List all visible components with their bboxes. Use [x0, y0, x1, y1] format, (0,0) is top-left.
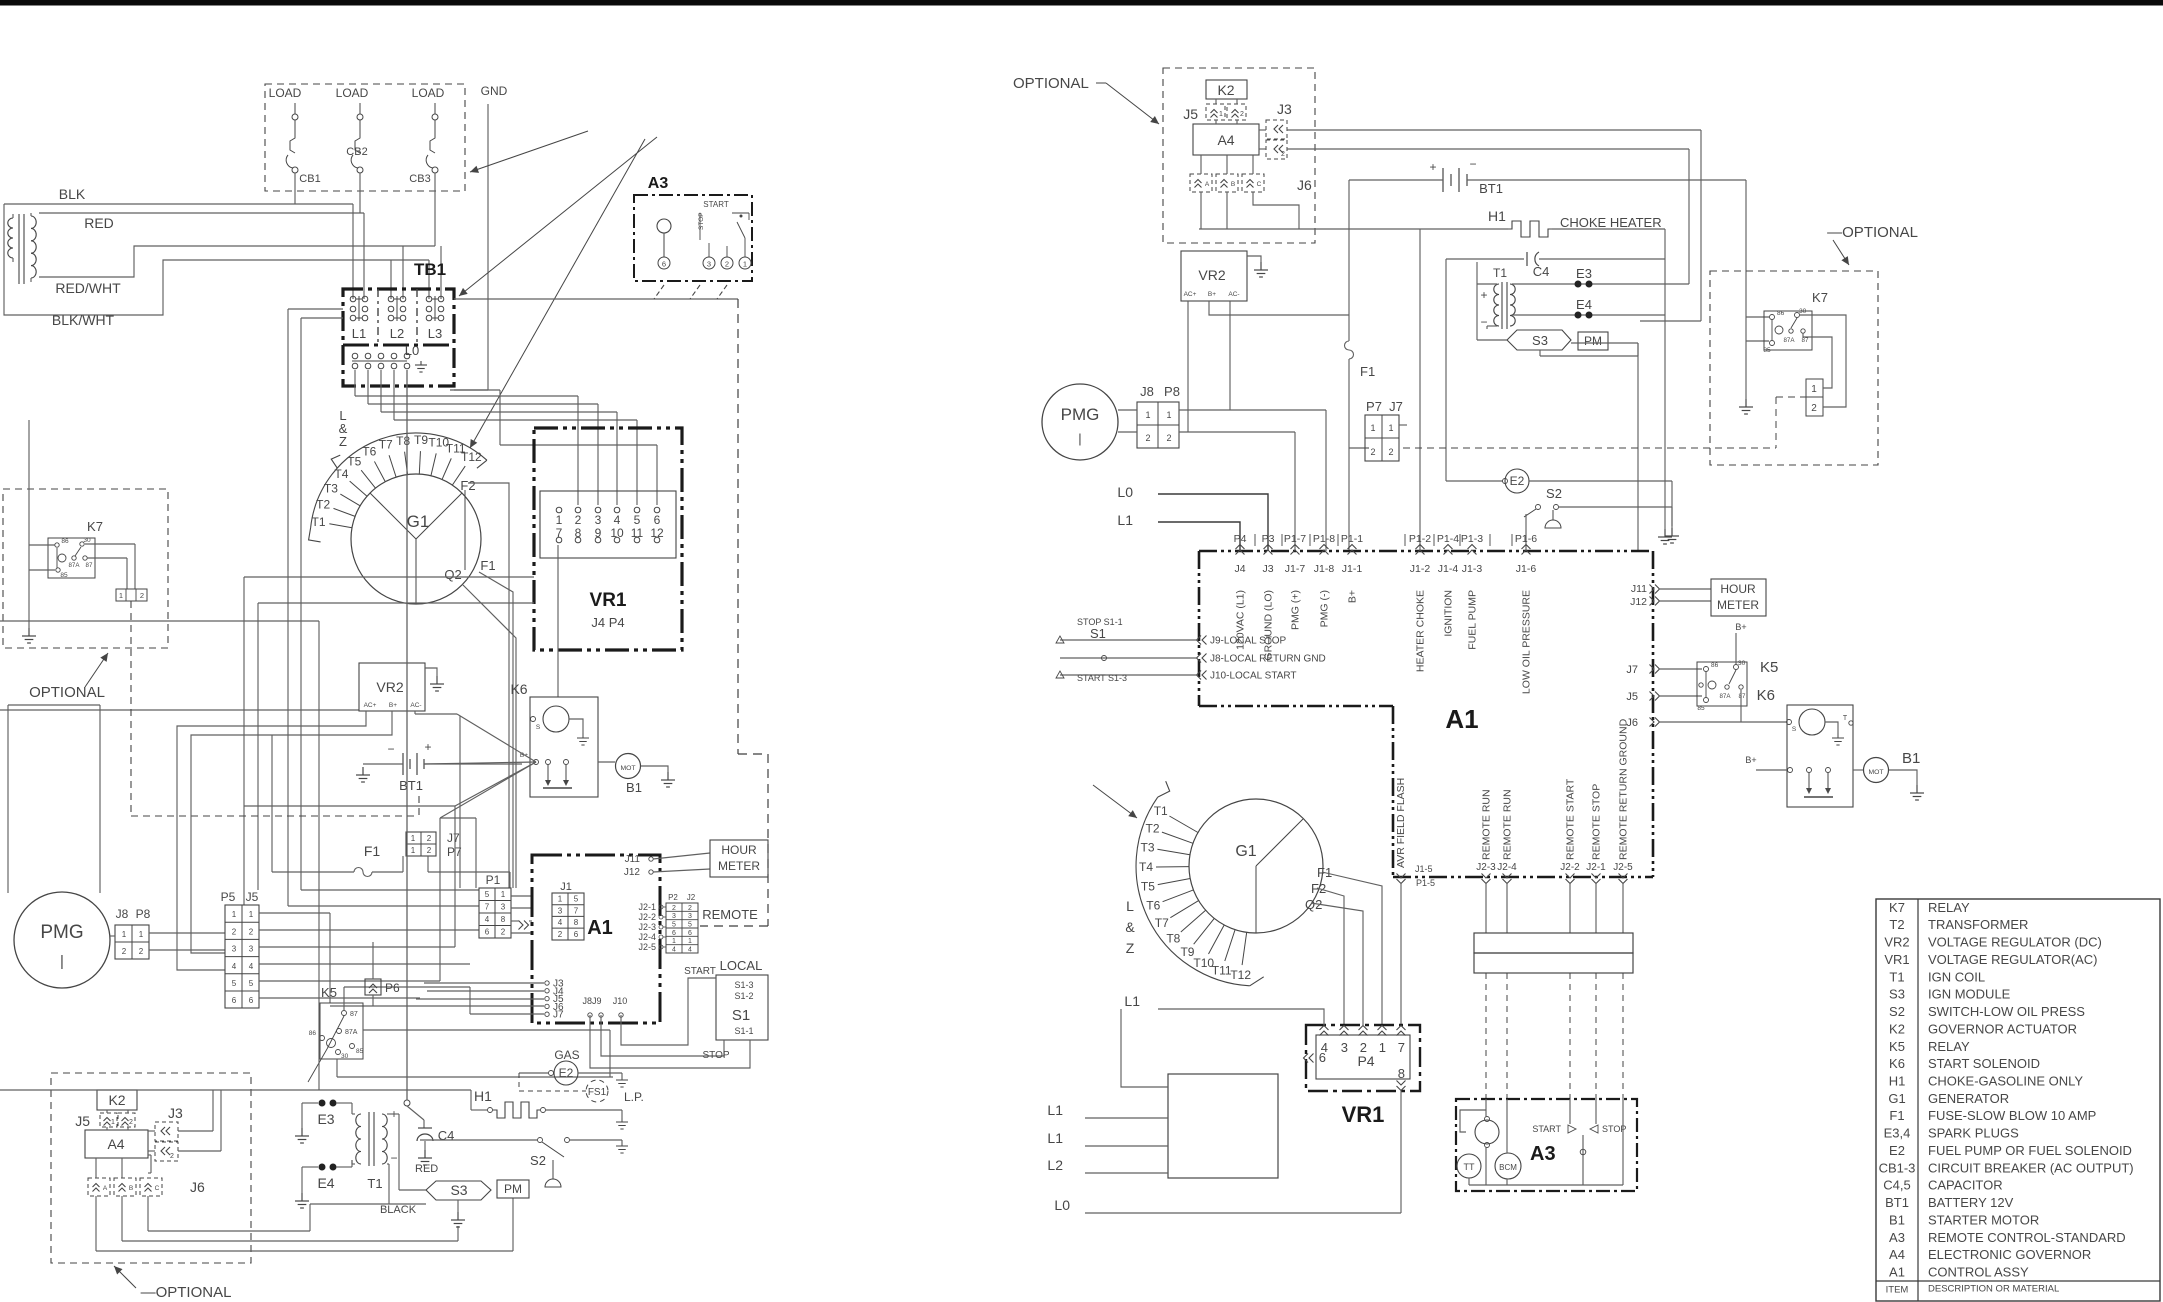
- svg-text:2: 2: [427, 834, 432, 843]
- svg-text:B+: B+: [1347, 590, 1359, 603]
- svg-text:DESCRIPTION OR MATERIAL: DESCRIPTION OR MATERIAL: [1928, 1284, 2059, 1295]
- svg-text:+: +: [1480, 288, 1487, 302]
- svg-text:LOW OIL PRESSURE: LOW OIL PRESSURE: [1521, 590, 1533, 694]
- svg-text:START: START: [1532, 1124, 1561, 1134]
- svg-text:G1: G1: [407, 512, 430, 531]
- svg-text:87: 87: [350, 1011, 358, 1018]
- svg-text:OPTIONAL: OPTIONAL: [29, 684, 105, 701]
- svg-text:J1-6: J1-6: [1516, 563, 1537, 575]
- svg-text:3: 3: [232, 945, 237, 954]
- svg-text:T7: T7: [379, 438, 393, 452]
- svg-text:J2-2: J2-2: [1560, 862, 1580, 873]
- svg-text:CONTROL ASSY: CONTROL ASSY: [1928, 1265, 2029, 1280]
- svg-text:T11: T11: [1212, 964, 1232, 978]
- svg-text:T1: T1: [1889, 969, 1904, 984]
- svg-text:BLK: BLK: [59, 186, 86, 202]
- svg-text:2: 2: [1145, 433, 1150, 443]
- svg-text:E2: E2: [1889, 1143, 1905, 1158]
- svg-text:85: 85: [1697, 705, 1705, 712]
- svg-text:87A: 87A: [1783, 337, 1795, 344]
- svg-text:START S1-3: START S1-3: [1077, 673, 1127, 683]
- svg-text:REMOTE START: REMOTE START: [1565, 778, 1577, 860]
- svg-text:T2: T2: [316, 498, 330, 512]
- svg-text:TRANSFORMER: TRANSFORMER: [1928, 917, 2028, 932]
- svg-text:FUSE-SLOW BLOW 10 AMP: FUSE-SLOW BLOW 10 AMP: [1928, 1108, 2096, 1123]
- svg-text:B: B: [1231, 181, 1235, 188]
- svg-text:T5: T5: [1141, 879, 1155, 893]
- svg-text:3: 3: [558, 906, 563, 915]
- svg-text:E4: E4: [317, 1175, 334, 1191]
- svg-text:C4: C4: [438, 1128, 455, 1143]
- svg-text:&: &: [1125, 919, 1135, 935]
- svg-text:J3: J3: [1277, 101, 1292, 117]
- svg-text:T9: T9: [414, 433, 428, 447]
- svg-text:PM: PM: [1584, 334, 1602, 348]
- svg-text:5: 5: [249, 979, 254, 988]
- svg-text:|: |: [1078, 431, 1081, 446]
- svg-text:6: 6: [654, 513, 661, 527]
- svg-text:3: 3: [595, 513, 602, 527]
- svg-text:J2-4: J2-4: [1497, 862, 1517, 873]
- svg-text:A: A: [103, 1185, 108, 1192]
- svg-text:6: 6: [688, 930, 692, 937]
- svg-text:—OPTIONAL: —OPTIONAL: [1827, 224, 1918, 241]
- svg-text:J2-1: J2-1: [638, 902, 656, 912]
- svg-text:LOAD: LOAD: [269, 86, 302, 100]
- svg-text:VR1: VR1: [1342, 1102, 1385, 1127]
- svg-text:2: 2: [249, 927, 254, 936]
- svg-text:K2: K2: [1889, 1021, 1905, 1036]
- svg-text:A4: A4: [107, 1136, 124, 1152]
- svg-text:3: 3: [707, 260, 711, 269]
- svg-text:L0: L0: [1117, 484, 1133, 500]
- svg-text:STARTER MOTOR: STARTER MOTOR: [1928, 1212, 2039, 1227]
- svg-text:E3: E3: [1576, 266, 1592, 281]
- svg-text:J2-5: J2-5: [638, 942, 656, 952]
- svg-text:FUEL PUMP OR FUEL SOLENOID: FUEL PUMP OR FUEL SOLENOID: [1928, 1143, 2132, 1158]
- svg-text:2: 2: [232, 927, 237, 936]
- svg-text:P1-3: P1-3: [1461, 533, 1483, 545]
- svg-text:8: 8: [1398, 1066, 1405, 1081]
- svg-text:−: −: [390, 1151, 397, 1165]
- svg-text:IGN MODULE: IGN MODULE: [1928, 987, 2011, 1002]
- svg-text:2: 2: [122, 947, 127, 956]
- svg-text:K2: K2: [1217, 82, 1234, 98]
- svg-text:T1: T1: [1493, 266, 1507, 280]
- svg-text:K5: K5: [1760, 659, 1778, 676]
- svg-text:L1: L1: [1124, 993, 1140, 1009]
- svg-text:1: 1: [1388, 423, 1393, 433]
- svg-text:J3: J3: [168, 1105, 183, 1121]
- svg-text:BT1: BT1: [1885, 1195, 1909, 1210]
- svg-text:Z: Z: [339, 434, 347, 449]
- svg-text:2: 2: [672, 905, 676, 912]
- svg-text:K2: K2: [108, 1092, 125, 1108]
- svg-text:J1-5: J1-5: [1415, 864, 1433, 874]
- svg-text:2: 2: [1166, 433, 1171, 443]
- svg-text:SPARK PLUGS: SPARK PLUGS: [1928, 1126, 2019, 1141]
- svg-text:4: 4: [672, 946, 676, 953]
- svg-text:VR2: VR2: [1884, 935, 1909, 950]
- svg-text:HOUR: HOUR: [1720, 582, 1756, 596]
- svg-text:HEATER CHOKE: HEATER CHOKE: [1415, 590, 1427, 672]
- svg-text:1: 1: [232, 910, 237, 919]
- svg-text:P3: P3: [1262, 533, 1275, 545]
- svg-text:A3: A3: [648, 175, 669, 192]
- svg-text:9: 9: [595, 526, 602, 540]
- svg-text:SWITCH-LOW OIL PRESS: SWITCH-LOW OIL PRESS: [1928, 1004, 2085, 1019]
- svg-text:P1-2: P1-2: [1409, 533, 1431, 545]
- svg-text:J1-8: J1-8: [1314, 563, 1335, 575]
- svg-text:87A: 87A: [345, 1029, 358, 1036]
- svg-text:10: 10: [610, 526, 624, 540]
- svg-text:B+: B+: [1745, 755, 1756, 765]
- svg-text:2: 2: [129, 1119, 133, 1126]
- svg-text:86: 86: [309, 1030, 317, 1037]
- svg-text:12: 12: [650, 526, 664, 540]
- svg-text:LOAD: LOAD: [412, 86, 445, 100]
- svg-text:A1: A1: [587, 917, 613, 939]
- svg-text:L3: L3: [428, 326, 442, 341]
- svg-text:P8: P8: [1164, 384, 1180, 399]
- svg-text:Q2: Q2: [444, 567, 461, 582]
- svg-text:F1: F1: [1889, 1108, 1904, 1123]
- svg-text:PM: PM: [504, 1182, 522, 1196]
- svg-text:P4: P4: [1357, 1053, 1374, 1069]
- svg-text:GOVERNOR ACTUATOR: GOVERNOR ACTUATOR: [1928, 1021, 2077, 1036]
- svg-text:—OPTIONAL: —OPTIONAL: [141, 1284, 232, 1301]
- svg-text:J11: J11: [625, 854, 641, 865]
- svg-text:P5: P5: [221, 890, 236, 904]
- svg-text:J1: J1: [560, 881, 572, 893]
- svg-text:87A: 87A: [68, 562, 80, 569]
- svg-text:S1: S1: [1090, 626, 1106, 641]
- svg-text:T4: T4: [334, 467, 348, 481]
- svg-text:A3: A3: [1530, 1143, 1556, 1165]
- svg-text:6: 6: [574, 930, 579, 939]
- svg-text:F1: F1: [1360, 364, 1375, 379]
- svg-text:S1-1: S1-1: [734, 1026, 753, 1036]
- svg-text:REMOTE CONTROL-STANDARD: REMOTE CONTROL-STANDARD: [1928, 1230, 2126, 1245]
- svg-text:C4,5: C4,5: [1883, 1178, 1910, 1193]
- svg-text:H1: H1: [1488, 208, 1506, 224]
- svg-text:HOUR: HOUR: [721, 843, 757, 857]
- svg-text:85: 85: [356, 1048, 364, 1055]
- svg-text:REMOTE RUN: REMOTE RUN: [1481, 789, 1493, 860]
- svg-text:T1: T1: [1154, 804, 1168, 818]
- svg-text:3: 3: [501, 903, 506, 912]
- svg-text:P1-1: P1-1: [1341, 533, 1363, 545]
- svg-text:86: 86: [1777, 310, 1785, 317]
- svg-text:L1: L1: [1047, 1130, 1063, 1146]
- svg-text:C: C: [1257, 181, 1262, 188]
- svg-text:P1-5: P1-5: [1416, 878, 1435, 888]
- svg-text:7: 7: [574, 906, 579, 915]
- svg-text:8: 8: [575, 526, 582, 540]
- svg-text:A1: A1: [1889, 1265, 1905, 1280]
- svg-text:CB1-3: CB1-3: [1879, 1160, 1916, 1175]
- svg-text:J5: J5: [246, 890, 259, 904]
- svg-text:3: 3: [672, 913, 676, 920]
- svg-text:87: 87: [86, 562, 93, 569]
- svg-text:5: 5: [688, 921, 692, 928]
- svg-text:T12: T12: [1230, 968, 1251, 982]
- svg-text:AC+: AC+: [364, 702, 377, 709]
- svg-text:+: +: [424, 740, 431, 754]
- svg-text:A3: A3: [1889, 1230, 1905, 1245]
- svg-text:J3: J3: [1262, 563, 1273, 575]
- svg-text:CAPACITOR: CAPACITOR: [1928, 1178, 2003, 1193]
- svg-text:P1-6: P1-6: [1515, 533, 1537, 545]
- svg-text:1: 1: [411, 846, 416, 855]
- svg-text:IGNITION: IGNITION: [1443, 590, 1455, 637]
- svg-text:B+: B+: [389, 702, 397, 709]
- svg-text:11: 11: [631, 526, 644, 540]
- svg-text:J1-3: J1-3: [1462, 563, 1483, 575]
- svg-text:8: 8: [574, 918, 579, 927]
- svg-text:1: 1: [1145, 410, 1150, 420]
- svg-text:J12: J12: [624, 867, 641, 878]
- svg-text:PMG: PMG: [40, 922, 83, 943]
- svg-text:G1: G1: [1888, 1091, 1905, 1106]
- svg-text:K7: K7: [87, 519, 103, 534]
- svg-text:T5: T5: [347, 455, 361, 469]
- svg-text:STOP: STOP: [698, 212, 705, 230]
- svg-text:86: 86: [1711, 662, 1719, 669]
- svg-text:2: 2: [501, 928, 506, 937]
- svg-text:E4: E4: [1576, 297, 1592, 312]
- svg-text:4: 4: [558, 918, 563, 927]
- svg-text:ITEM: ITEM: [1886, 1285, 1909, 1296]
- svg-text:6: 6: [1319, 1050, 1326, 1065]
- svg-text:P6: P6: [385, 981, 400, 995]
- svg-text:C: C: [155, 1185, 160, 1192]
- svg-text:1: 1: [111, 1119, 115, 1126]
- svg-text:4: 4: [614, 513, 621, 527]
- svg-text:J1-7: J1-7: [1285, 563, 1306, 575]
- svg-text:C4: C4: [1533, 264, 1550, 279]
- svg-text:J8J9: J8J9: [582, 996, 601, 1006]
- svg-text:2: 2: [725, 260, 729, 269]
- svg-text:AVR FIELD FLASH: AVR FIELD FLASH: [1395, 778, 1407, 868]
- svg-text:IGN COIL: IGN COIL: [1928, 969, 1985, 984]
- svg-text:2: 2: [170, 1153, 174, 1160]
- svg-text:1: 1: [501, 890, 506, 899]
- svg-text:RED/WHT: RED/WHT: [55, 280, 121, 296]
- svg-text:E3: E3: [317, 1111, 334, 1127]
- svg-text:LOAD: LOAD: [336, 86, 369, 100]
- svg-text:T7: T7: [1155, 916, 1169, 930]
- svg-text:J1-1: J1-1: [1342, 563, 1363, 575]
- svg-text:1: 1: [139, 930, 144, 939]
- svg-text:F1: F1: [480, 558, 495, 573]
- svg-text:1: 1: [249, 910, 254, 919]
- svg-text:GND: GND: [481, 84, 508, 98]
- svg-text:S2: S2: [1889, 1004, 1905, 1019]
- svg-text:REMOTE: REMOTE: [702, 907, 758, 922]
- svg-text:1: 1: [122, 930, 127, 939]
- svg-text:4: 4: [688, 946, 692, 953]
- svg-text:B1: B1: [1902, 750, 1920, 767]
- svg-text:J10-LOCAL START: J10-LOCAL START: [1210, 671, 1297, 682]
- svg-text:A4: A4: [1217, 132, 1234, 148]
- svg-text:T3: T3: [324, 481, 338, 495]
- svg-text:6: 6: [662, 260, 666, 269]
- svg-text:T2: T2: [1146, 822, 1160, 836]
- svg-text:85: 85: [1763, 347, 1771, 354]
- svg-text:PMG (+): PMG (+): [1290, 590, 1302, 630]
- svg-text:P2: P2: [668, 893, 678, 902]
- svg-text:−: −: [1469, 157, 1476, 171]
- svg-text:7: 7: [485, 903, 490, 912]
- svg-text:GENERATOR: GENERATOR: [1928, 1091, 2009, 1106]
- svg-text:AC-: AC-: [410, 702, 421, 709]
- svg-text:L2: L2: [1047, 1157, 1063, 1173]
- svg-text:VR1: VR1: [1884, 952, 1909, 967]
- svg-text:J7: J7: [553, 1010, 564, 1021]
- svg-text:LOCAL: LOCAL: [720, 958, 763, 973]
- svg-text:T12: T12: [461, 450, 482, 464]
- svg-text:2: 2: [1370, 447, 1375, 457]
- svg-text:L0: L0: [1054, 1197, 1070, 1213]
- svg-text:T8: T8: [396, 434, 410, 448]
- svg-text:L1: L1: [352, 326, 366, 341]
- svg-text:5: 5: [634, 513, 641, 527]
- svg-text:L1: L1: [1117, 512, 1133, 528]
- svg-text:1: 1: [1219, 111, 1223, 118]
- svg-text:87A: 87A: [1719, 693, 1731, 700]
- svg-text:2: 2: [1811, 403, 1817, 414]
- svg-text:K5: K5: [321, 985, 337, 1000]
- svg-text:FS1: FS1: [588, 1087, 607, 1098]
- svg-text:J1-2: J1-2: [1410, 563, 1431, 575]
- svg-text:PMG (-): PMG (-): [1319, 590, 1331, 627]
- svg-text:P7: P7: [1366, 399, 1382, 414]
- svg-text:BT1: BT1: [1479, 181, 1503, 196]
- svg-text:REMOTE RETURN GROUND: REMOTE RETURN GROUND: [1618, 718, 1630, 860]
- svg-text:T8: T8: [1166, 932, 1180, 946]
- svg-text:METER: METER: [718, 859, 760, 873]
- svg-text:6: 6: [232, 996, 237, 1005]
- svg-text:B+: B+: [1735, 622, 1746, 632]
- svg-text:2: 2: [558, 930, 563, 939]
- svg-text:BT1: BT1: [399, 778, 423, 793]
- svg-text:A4: A4: [1889, 1247, 1905, 1262]
- svg-text:S: S: [1792, 726, 1797, 733]
- svg-text:BLACK: BLACK: [380, 1204, 417, 1216]
- svg-text:J5: J5: [1626, 691, 1638, 703]
- svg-text:CB1: CB1: [299, 173, 320, 185]
- svg-text:+: +: [1429, 160, 1436, 174]
- svg-text:S1-3: S1-3: [734, 980, 753, 990]
- svg-text:K6: K6: [1757, 687, 1775, 704]
- svg-text:3: 3: [1341, 1040, 1348, 1055]
- svg-text:REMOTE STOP: REMOTE STOP: [1591, 784, 1603, 860]
- svg-text:J7: J7: [447, 831, 460, 845]
- svg-text:L: L: [1126, 898, 1134, 914]
- svg-text:L2: L2: [390, 326, 404, 341]
- svg-text:VOLTAGE REGULATOR (DC): VOLTAGE REGULATOR (DC): [1928, 935, 2102, 950]
- svg-text:S3: S3: [1889, 987, 1905, 1002]
- svg-text:1: 1: [558, 895, 563, 904]
- svg-text:J4: J4: [1234, 563, 1245, 575]
- svg-text:S1: S1: [732, 1007, 750, 1024]
- svg-text:P1-7: P1-7: [1284, 533, 1306, 545]
- svg-text:S2: S2: [530, 1153, 546, 1168]
- svg-text:T6: T6: [362, 445, 376, 459]
- svg-text:J7: J7: [1389, 399, 1403, 414]
- svg-text:J8: J8: [1140, 384, 1154, 399]
- svg-text:2: 2: [575, 513, 582, 527]
- svg-text:2: 2: [688, 905, 692, 912]
- svg-text:G1: G1: [1235, 843, 1256, 860]
- svg-text:2: 2: [139, 947, 144, 956]
- svg-text:T1: T1: [311, 515, 325, 529]
- svg-text:VR1: VR1: [590, 590, 627, 611]
- svg-text:1: 1: [556, 513, 563, 527]
- svg-text:5: 5: [485, 890, 490, 899]
- svg-text:K7: K7: [1889, 900, 1905, 915]
- svg-text:METER: METER: [1717, 598, 1759, 612]
- svg-text:VR2: VR2: [376, 679, 403, 695]
- svg-text:1: 1: [411, 834, 416, 843]
- svg-text:6: 6: [249, 996, 254, 1005]
- svg-text:START: START: [684, 966, 716, 977]
- svg-text:1: 1: [672, 938, 676, 945]
- svg-text:L.P.: L.P.: [624, 1090, 644, 1104]
- svg-text:J2-5: J2-5: [1613, 862, 1633, 873]
- svg-text:J2: J2: [687, 893, 696, 902]
- svg-text:E3,4: E3,4: [1884, 1126, 1911, 1141]
- svg-text:T2: T2: [1889, 917, 1904, 932]
- svg-text:87: 87: [1802, 337, 1809, 344]
- svg-text:K6: K6: [510, 681, 527, 697]
- svg-text:P1-4: P1-4: [1437, 533, 1459, 545]
- svg-text:1: 1: [119, 591, 123, 600]
- svg-text:30: 30: [1799, 308, 1807, 315]
- svg-text:FUEL PUMP: FUEL PUMP: [1467, 590, 1479, 650]
- svg-text:B1: B1: [1889, 1212, 1905, 1227]
- svg-text:J2-1: J2-1: [1586, 862, 1606, 873]
- svg-text:VOLTAGE REGULATOR(AC): VOLTAGE REGULATOR(AC): [1928, 952, 2098, 967]
- svg-text:2: 2: [140, 591, 144, 600]
- svg-text:S2: S2: [1546, 486, 1562, 501]
- svg-text:J1-4: J1-4: [1438, 563, 1459, 575]
- svg-text:J6: J6: [1297, 177, 1312, 193]
- svg-text:START: START: [703, 200, 729, 209]
- svg-text:ELECTRONIC GOVERNOR: ELECTRONIC GOVERNOR: [1928, 1247, 2091, 1262]
- svg-text:T1: T1: [367, 1176, 382, 1191]
- svg-text:1: 1: [1811, 384, 1817, 395]
- svg-text:87: 87: [1739, 693, 1746, 700]
- svg-text:CHOKE HEATER: CHOKE HEATER: [1560, 215, 1662, 230]
- svg-text:J12: J12: [1630, 596, 1647, 608]
- svg-text:F1: F1: [364, 843, 381, 859]
- svg-text:GAS: GAS: [554, 1048, 579, 1062]
- svg-text:85: 85: [60, 572, 68, 579]
- svg-text:5: 5: [672, 921, 676, 928]
- svg-text:J6: J6: [190, 1179, 205, 1195]
- svg-text:J10: J10: [613, 996, 628, 1006]
- svg-text:1: 1: [743, 260, 747, 269]
- svg-text:Z: Z: [1126, 940, 1135, 956]
- svg-text:T3: T3: [1141, 841, 1155, 855]
- svg-text:CB2: CB2: [346, 146, 367, 158]
- svg-text:P4: P4: [1234, 533, 1247, 545]
- svg-text:TB1: TB1: [414, 260, 446, 279]
- svg-text:J2-2: J2-2: [638, 912, 656, 922]
- svg-text:2: 2: [1281, 151, 1285, 158]
